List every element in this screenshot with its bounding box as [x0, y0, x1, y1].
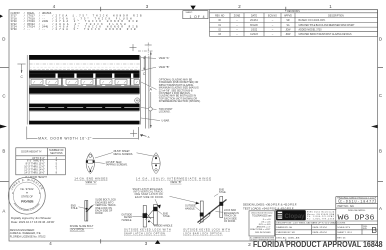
svg-text:--: --	[272, 34, 274, 36]
svg-text:DIM. IN INCHES: DIM. IN INCHES	[255, 232, 271, 234]
svg-text:SHEET 1 OF 6: SHEET 1 OF 6	[337, 232, 352, 234]
svg-text:Fx: 1-800-799-2358: Fx: 1-800-799-2358	[307, 219, 334, 221]
svg-text:VIEW "B": VIEW "B"	[170, 180, 181, 184]
svg-text:UPDATED IMPACT RESISTANT GLAZI: UPDATED IMPACT RESISTANT GLAZING DETAILS	[299, 33, 352, 36]
svg-text:TOLERANCES are: TOLERANCES are	[252, 214, 272, 217]
svg-text:REVISIONS: REVISIONS	[287, 11, 300, 13]
svg-text:ANGLES = ±1°: ANGLES = ±1°	[257, 226, 271, 229]
svg-text:--: --	[236, 25, 238, 27]
svg-text:3730/--/--/27GA 3" THICK HONOR: 3730/--/--/27GA 3" THICK HONOR RIB	[11, 27, 136, 31]
svg-text:D: D	[379, 37, 382, 42]
dash-dot extension above jamb	[147, 43, 149, 56]
svg-text:HANDLE.: HANDLE.	[185, 207, 196, 210]
zone numbers bottom	[49, 241, 148, 246]
svg-text:VIEW "A": VIEW "A"	[159, 57, 170, 60]
zone letters left	[2, 37, 5, 214]
svg-text:--: --	[272, 20, 274, 22]
zone letters right	[379, 37, 382, 211]
right jamb lines	[145, 56, 147, 129]
svg-text:14'-3" THRU 16'-0": 14'-3" THRU 16'-0"	[24, 171, 45, 174]
balloon on two-point-locking leader	[148, 107, 152, 111]
window joints	[61, 78, 131, 87]
hinge view A	[86, 153, 94, 174]
svg-text:B: B	[371, 226, 377, 235]
svg-text:SHEET:: SHEET:	[186, 12, 193, 14]
svg-text:LOCK BAR LOCK OPTION.: LOCK BAR LOCK OPTION.	[183, 233, 223, 236]
cross at (133.6,133.3)	[130, 132, 137, 134]
border tick left edge y=16	[0, 15, 3, 18]
svg-text:14 GA. END HINGES: 14 GA. END HINGES	[74, 176, 107, 180]
svg-text:8/31/20: 8/31/20	[250, 25, 258, 27]
svg-text:DOOR.: DOOR.	[95, 212, 103, 215]
svg-text:EACH SIDE OF DOOR.: EACH SIDE OF DOOR.	[135, 196, 164, 199]
svg-text:APPVD: APPVD	[284, 15, 292, 18]
svg-text:4B: 4B	[136, 100, 139, 103]
top section faint rib lines	[29, 63, 139, 65]
svg-text:U-BAR.: U-BAR.	[162, 120, 171, 123]
svg-text:OUTSIDE KEYED LOCK WITH: OUTSIDE KEYED LOCK WITH	[124, 229, 171, 232]
svg-text:SR: SR	[286, 20, 290, 22]
svg-text:--: --	[272, 25, 274, 27]
svg-text:JDW: JDW	[286, 30, 292, 32]
svg-text:C-DS1U-10477: C-DS1U-10477	[340, 200, 374, 204]
elevation notes	[159, 57, 170, 69]
svg-text:✦: ✦	[12, 192, 14, 195]
svg-text:VIEW "A": VIEW "A"	[85, 180, 96, 184]
border tick triangle bottom (x=157.5 pointing up)	[155, 240, 160, 244]
svg-text:Digitally signed by Jim Wheele: Digitally signed by Jim Wheeler	[11, 216, 51, 220]
gray transition	[29, 86, 139, 87]
svg-text:MAX. DOOR WIDTH 16'-2": MAX. DOOR WIDTH 16'-2"	[38, 137, 92, 141]
window header row	[29, 77, 139, 79]
svg-text:Date: 2023.10.17 16:33:46 -04': Date: 2023.10.17 16:33:46 -04'00'	[11, 220, 55, 224]
svg-text:DP36: DP36	[355, 214, 375, 222]
svg-text:SCALE: NTS: SCALE: NTS	[337, 226, 350, 229]
svg-text:ECN NO: ECN NO	[268, 16, 277, 18]
svg-text:DESCRIPTION: 1-3/4" WINDLOAD: DESCRIPTION: 1-3/4" WINDLOAD BARS UP TO …	[276, 222, 345, 225]
svg-text:INSIDE HANDLE: INSIDE HANDLE	[154, 225, 173, 228]
heavy joint band	[29, 88, 139, 94]
leaders to notes	[141, 58, 160, 121]
cross at (148.2,45)	[145, 44, 152, 46]
svg-text:14 GA. (GALV) INTERMEDIATE HIN: 14 GA. (GALV) INTERMEDIATE HINGE	[136, 176, 211, 180]
border tick triangle top (x=193 pointing down)	[190, 6, 195, 10]
svg-text:STILE.: STILE.	[163, 215, 171, 218]
svg-text:SNAP LATCH LOCK OPTION.: SNAP LATCH LOCK OPTION.	[124, 233, 166, 236]
design engineer block	[10, 228, 46, 239]
svg-text:W6: W6	[338, 214, 350, 222]
address	[307, 211, 335, 221]
border tick right y=126	[371, 125, 378, 128]
svg-text:METAL SCREWS.: METAL SCREWS.	[114, 153, 134, 156]
dash-dot horizontal at A-dim top	[138, 50, 153, 52]
C dimension left	[21, 64, 23, 73]
svg-text:LOCKING.: LOCKING.	[159, 111, 171, 114]
svg-text:A: A	[148, 135, 150, 139]
model table (top-left)	[11, 11, 142, 31]
svg-text:WINDLOAD RATING:: WINDLOAD RATING:	[348, 209, 366, 212]
top rail band	[29, 55, 139, 60]
door left edge	[26, 55, 28, 125]
svg-text:1 OF 4: 1 OF 4	[190, 15, 205, 19]
svg-text:1/5/22: 1/5/22	[251, 30, 258, 32]
svg-text:BASED ON 10403-R05.: BASED ON 10403-R05.	[299, 19, 326, 22]
svg-text:DATE: 2/13/14: DATE: 2/13/14	[313, 226, 328, 229]
svg-text:A: A	[2, 209, 5, 214]
svg-text:2/13/14: 2/13/14	[250, 20, 258, 22]
svg-text:TEST LOADS: +54.0 P.S.F. & -63: TEST LOADS: +54.0 P.S.F. & -63.0 P.S.F.	[243, 206, 294, 210]
svg-text:--: --	[272, 30, 274, 32]
svg-text:REV. NO: REV. NO	[215, 16, 224, 18]
svg-text:--: --	[236, 20, 238, 22]
right ext line of width dim	[137, 127, 139, 140]
svg-text:DOOR HEIGHT 'H': DOOR HEIGHT 'H'	[21, 151, 42, 154]
svg-text:C: C	[379, 93, 382, 98]
svg-text:B: B	[2, 149, 5, 154]
svg-text:--: --	[236, 34, 238, 36]
svg-text:UPDATED TITLE BLOCK AND REMOVE: UPDATED TITLE BLOCK AND REMOVED WIND CHA…	[299, 24, 356, 27]
svg-text:ZONE: ZONE	[234, 16, 241, 18]
max door width dimension	[26, 127, 28, 140]
joint band segmented	[29, 73, 139, 77]
svg-text:DATE: DATE	[251, 15, 257, 18]
clopay logo	[276, 210, 306, 220]
svg-text:✦: ✦	[39, 192, 41, 195]
windows row	[31, 79, 139, 84]
svg-text:No. 97102: No. 97102	[21, 187, 34, 191]
svg-text:INTERMEDIATE SECTION (SHOWN).: INTERMEDIATE SECTION (SHOWN).	[159, 100, 201, 103]
svg-text:D: D	[2, 37, 5, 42]
joint band solid	[29, 70, 139, 73]
svg-text:--: --	[236, 30, 238, 32]
hinge view B	[152, 153, 160, 174]
svg-text:OF DOOR.: OF DOOR.	[224, 220, 236, 223]
revisions table	[210, 10, 378, 37]
svg-text:Florida: Florida	[21, 199, 33, 203]
svg-text:DATE: 4/16/14: DATE: 4/16/14	[313, 231, 328, 234]
mid joint band	[29, 104, 139, 111]
svg-text:B: B	[379, 149, 382, 154]
svg-text:FRACTIONS = ±1/32": FRACTIONS = ±1/32"	[250, 228, 271, 231]
window glass slashes	[33, 81, 137, 83]
svg-text:2: 2	[248, 242, 251, 248]
svg-text:FLORIDA LICENSE No. 97102: FLORIDA LICENSE No. 97102	[10, 234, 46, 238]
section meeting rib (dashed gray)	[29, 68, 139, 70]
window sill segmented row	[29, 84, 139, 86]
svg-text:CHECKED BY: SR: CHECKED BY: SR	[276, 232, 295, 234]
svg-text:A: A	[379, 206, 382, 211]
sheet box	[183, 11, 208, 19]
door right edge	[140, 56, 142, 125]
svg-text:Clopay: Clopay	[284, 214, 305, 220]
balloon 4B	[135, 98, 140, 103]
svg-text:OUTSIDE KEYED LOCK WITH: OUTSIDE KEYED LOCK WITH	[183, 229, 230, 232]
svg-text:11/3/23: 11/3/23	[250, 34, 258, 36]
svg-text:VIEW "B": VIEW "B"	[159, 66, 170, 69]
svg-text:LOCK OPTION.: LOCK OPTION.	[70, 229, 85, 232]
cross at (133,47.6)	[130, 47, 137, 49]
svg-text:Unless Noted Otherwise: Unless Noted Otherwise	[251, 212, 273, 215]
svg-text:HANDLE.: HANDLE.	[122, 219, 133, 222]
svg-text:SECTIONS: SECTIONS	[50, 152, 63, 155]
bottom band	[29, 121, 139, 125]
C dimension right	[143, 56, 145, 71]
border tick left y=126	[0, 125, 7, 129]
svg-text:FLORIDA PRODUCT APPROVAL 16848: FLORIDA PRODUCT APPROVAL 16848	[253, 239, 383, 249]
screw notes	[106, 150, 134, 166]
section arrow A	[141, 135, 147, 137]
svg-text:DRAWN BY: SH: DRAWN BY: SH	[276, 226, 292, 229]
A dimension line	[150, 52, 152, 129]
svg-text:TAPPING SCREWS.: TAPPING SCREWS.	[106, 164, 128, 167]
svg-text:ADDED MODEL 3730: ADDED MODEL 3730	[299, 29, 323, 32]
svg-text:DESCRIPTION: DESCRIPTION	[328, 16, 344, 18]
svg-text:STATE OF: STATE OF	[21, 196, 33, 199]
svg-text:SA: SA	[286, 24, 290, 27]
svg-text:STILE.: STILE.	[219, 191, 227, 194]
svg-text:C: C	[2, 94, 5, 99]
svg-text:JDW: JDW	[286, 34, 292, 36]
zone numbers top	[53, 4, 333, 9]
svg-text:STILE.: STILE.	[71, 207, 79, 210]
svg-text:PART NO.: N/A: PART NO.: N/A	[338, 205, 355, 208]
